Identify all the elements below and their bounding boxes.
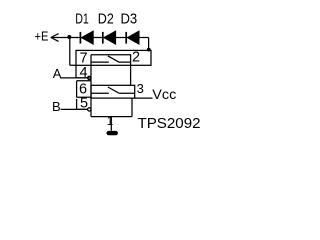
U1 body bottom edge — [91, 116, 132, 118]
pin box 6 — [77, 81, 91, 97]
svg-text:D2: D2 — [98, 12, 114, 28]
svg-text:+E: +E — [35, 29, 49, 44]
U1 lower body right edge — [131, 98, 133, 117]
diode D3 triangle — [127, 31, 139, 44]
svg-text:2: 2 — [132, 50, 140, 66]
svg-text:5: 5 — [80, 96, 88, 112]
pin box 4 — [76, 65, 91, 78]
svg-text:D1: D1 — [75, 12, 89, 28]
wire from D3 down to IC top edge — [148, 38, 150, 51]
pin box 5 — [77, 99, 88, 110]
switch cell 2 rect — [91, 85, 135, 98]
diode D2 triangle — [104, 31, 116, 44]
wire top diode line — [69, 37, 148, 39]
wire pin 3 to Vcc — [135, 97, 153, 99]
diode D3 cathode bar — [125, 32, 127, 44]
switch SW2 — [91, 87, 135, 94]
wire B — [61, 108, 88, 110]
bubble pin 5 — [88, 108, 91, 111]
svg-text:D3: D3 — [121, 12, 138, 28]
bubble pin 4 — [88, 76, 91, 79]
switch cell 1 top edge and right connector down to cell 2 — [91, 55, 131, 86]
svg-text:3: 3 — [137, 81, 144, 96]
U1 body left edge — [90, 55, 92, 117]
svg-text:TPS2092: TPS2092 — [138, 115, 201, 132]
arrow toward +E — [51, 34, 70, 42]
wire +E down to pin 7 stub — [70, 37, 76, 65]
wire A — [60, 77, 87, 79]
ground bar — [107, 131, 118, 135]
node junction dot on +E wire — [67, 35, 71, 39]
svg-text:4: 4 — [80, 65, 88, 81]
wire pin 1 down to ground — [110, 117, 112, 131]
svg-text:A: A — [53, 66, 62, 81]
diode D1 triangle — [81, 31, 93, 44]
diode D1 cathode bar — [79, 32, 81, 44]
svg-text:B: B — [52, 99, 61, 114]
svg-text:7: 7 — [80, 50, 88, 66]
U1 header rect with pin 7 and pin 2 — [76, 50, 151, 65]
diode D2 cathode bar — [102, 32, 104, 44]
node dot on IC top edge — [147, 48, 151, 52]
svg-text:Vcc: Vcc — [152, 86, 176, 102]
switch SW1 — [91, 56, 131, 63]
svg-text:1: 1 — [107, 116, 113, 128]
